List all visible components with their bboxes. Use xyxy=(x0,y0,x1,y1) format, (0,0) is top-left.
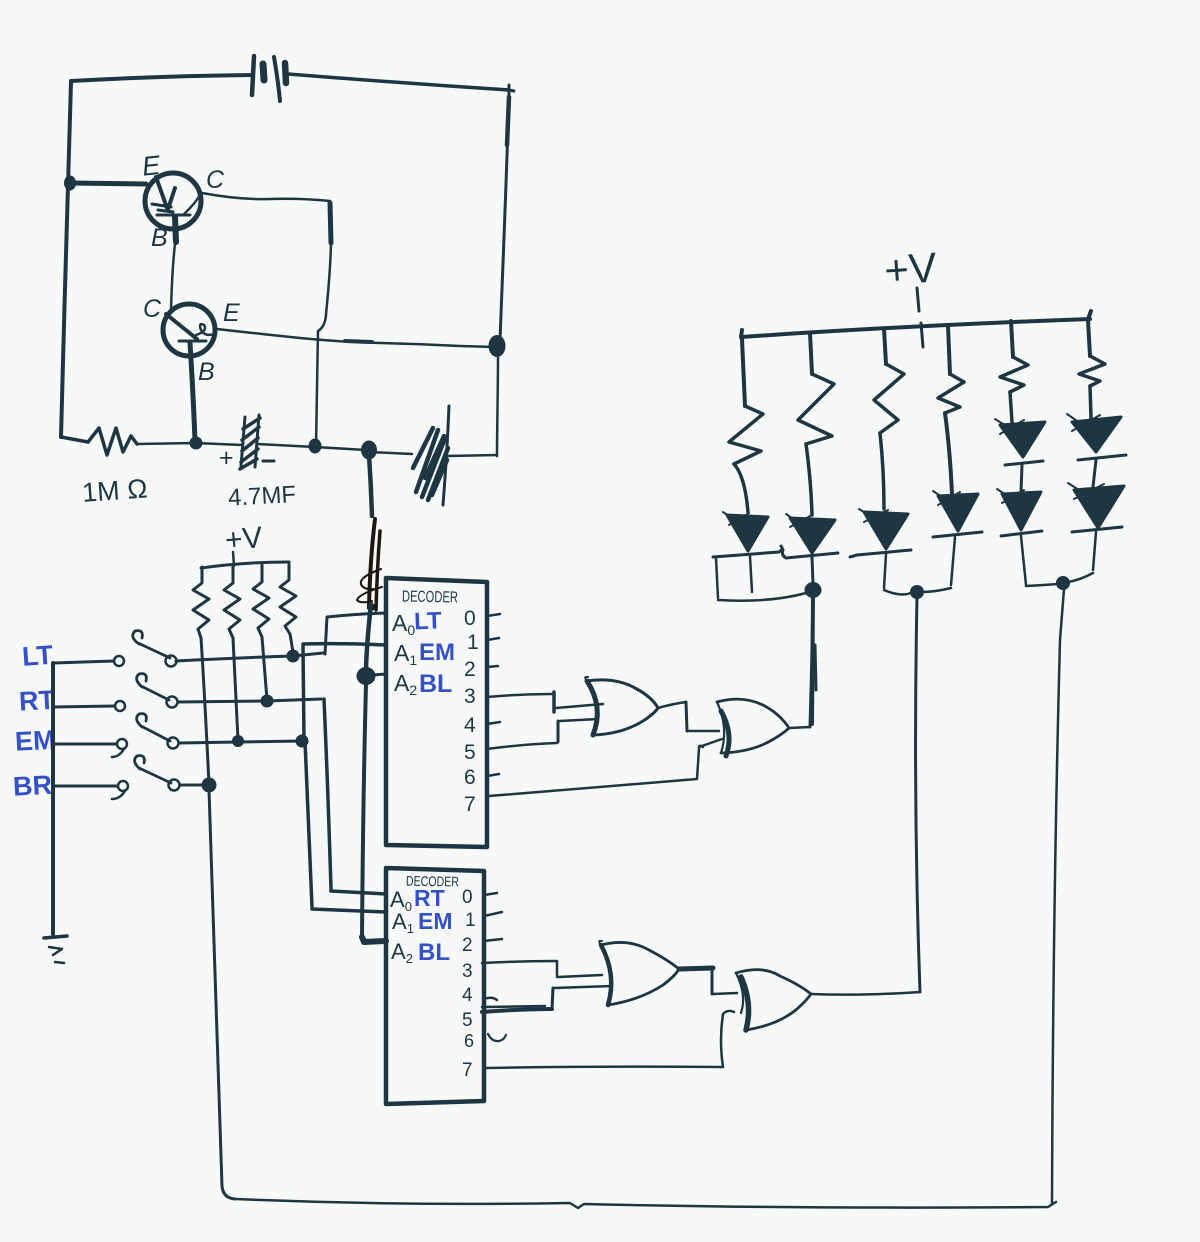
wire left vertical (battery- to bottom rail) xyxy=(61,82,71,437)
wire pullup bus xyxy=(201,562,288,568)
wire R4 column to RT row xyxy=(262,637,267,700)
resistor RL4 xyxy=(938,374,964,413)
wire U1 out4 stub xyxy=(487,722,500,724)
node left LED pair xyxy=(805,583,821,598)
wire LED branch1 mid xyxy=(734,464,748,512)
node brake LED pair xyxy=(1057,577,1070,590)
LED D3 xyxy=(850,509,911,557)
wire top rail left xyxy=(71,75,252,81)
wire LT row xyxy=(176,656,293,661)
node: base-resistor junction xyxy=(190,437,202,449)
wire LED branch2 mid xyxy=(806,444,812,515)
wire LED branch6 bottom xyxy=(1068,532,1096,582)
wire LED branch2 top xyxy=(810,333,812,374)
wire U1 out2 stub xyxy=(487,666,498,667)
LED D6a xyxy=(1067,414,1126,460)
wire U2 out1 stub xyxy=(484,912,502,916)
node RT-R4 xyxy=(261,695,273,707)
wire U1 out5 to G1 xyxy=(487,743,557,749)
wire LED branch5 top xyxy=(1011,321,1013,357)
decoder U1 xyxy=(386,578,487,847)
wire right vertical from battery+ xyxy=(500,85,514,341)
node: Q1 emitter junction on left vertical xyxy=(65,176,76,190)
resistor RL6 xyxy=(1079,356,1105,386)
resistor RL2 xyxy=(798,374,834,444)
wire BR row xyxy=(180,784,209,787)
LED D4 xyxy=(933,491,982,537)
wire LED branch6 mid xyxy=(1090,386,1091,418)
node BR junction xyxy=(202,778,216,792)
node right-turn LED pair xyxy=(911,586,924,599)
wire LED branch5 gap xyxy=(1021,465,1022,492)
wire U2 out7 to G4 xyxy=(484,1067,723,1068)
wire U1 out6 stub xyxy=(487,774,499,776)
wire bottom rail left xyxy=(61,437,88,442)
wire BL continue xyxy=(366,604,371,668)
or gate G1 xyxy=(585,677,658,735)
wire G2 up to left LED pair xyxy=(810,596,816,727)
wire switch common bus vertical xyxy=(51,663,55,934)
wire LED branch3 bottom xyxy=(884,554,911,594)
wire LED branch1 bottom xyxy=(716,556,806,601)
wire LED branch4 mid xyxy=(945,413,952,494)
wire LED branch1 top xyxy=(742,339,745,406)
wire LED branch3 top xyxy=(884,329,886,364)
svg-text:LT: LT xyxy=(414,607,443,635)
wire out7 riser to G4 xyxy=(721,1011,734,1067)
wire LED branch4 bottom xyxy=(921,537,955,592)
wire Q1 collector xyxy=(202,193,330,201)
xor gate G4 xyxy=(736,970,811,1030)
wire Q2 emitter to right vertical xyxy=(217,329,495,347)
wire BR down long xyxy=(209,790,235,1199)
ground xyxy=(44,936,67,963)
wire U2 out2 stub xyxy=(484,939,502,941)
battery B1 xyxy=(252,56,286,101)
resistor R2 xyxy=(193,567,209,638)
wire R3 column to EM row xyxy=(233,638,238,740)
resistor RL5 xyxy=(1000,357,1028,392)
wire EM down to decoder2 A1 xyxy=(305,741,386,912)
svg-text:7: 7 xyxy=(464,793,476,816)
svg-text:B: B xyxy=(151,224,168,252)
wire RT row xyxy=(178,699,321,702)
svg-text:C: C xyxy=(206,166,225,194)
LED D5b xyxy=(997,489,1042,536)
wire G4 output xyxy=(811,992,920,995)
svg-text:EM: EM xyxy=(418,908,453,934)
wire R2 column to BR row xyxy=(201,638,209,785)
wire +V ticks xyxy=(917,288,923,347)
capacitor C1 4.7MF xyxy=(240,415,260,469)
svg-text:EM: EM xyxy=(14,725,56,757)
wire bottom rail xyxy=(137,443,242,445)
node: decoder1 A2 junction xyxy=(357,668,375,685)
svg-text:2: 2 xyxy=(464,658,476,681)
svg-text:2: 2 xyxy=(462,935,473,956)
wire U1 out1 stub xyxy=(487,638,499,640)
wire LED supply bus xyxy=(741,311,1091,337)
node EM branch xyxy=(296,735,308,747)
svg-text:C: C xyxy=(143,295,162,323)
wire U2 out3 to G3 xyxy=(482,961,602,977)
svg-text:+: + xyxy=(219,444,234,472)
wire G2 output xyxy=(789,727,810,728)
wire EM up to decoder1 A1 xyxy=(303,644,386,741)
svg-text:BL: BL xyxy=(418,939,450,966)
svg-text:LT: LT xyxy=(21,640,55,672)
wire U1 out3 to G1 xyxy=(487,694,552,697)
wire LED branch5 bottom xyxy=(1021,536,1058,586)
label C1 minus xyxy=(263,460,274,463)
wire U1 out0 stub xyxy=(487,614,500,616)
wire +V tick xyxy=(233,552,234,566)
wire U2 out6 squiggle stub xyxy=(488,1034,506,1041)
svg-text:3: 3 xyxy=(462,961,473,982)
node: right vertical junction with Q2 emitter xyxy=(489,336,505,357)
svg-text:6: 6 xyxy=(464,766,476,789)
wire U2 out5 to G3 xyxy=(482,1009,552,1012)
svg-text:RT: RT xyxy=(18,685,56,717)
svg-text:0: 0 xyxy=(464,607,476,630)
wire R5 column to LT row xyxy=(290,634,293,652)
resistor RL1 xyxy=(729,406,763,464)
wire LED branch6 gap xyxy=(1093,460,1096,487)
wire LT to A0 xyxy=(293,613,386,656)
wire top rail right xyxy=(288,74,509,90)
wire LED branch4 top xyxy=(948,326,950,374)
wire U2 out4 stub xyxy=(484,998,497,1000)
wire BL thick from tap xyxy=(369,455,372,516)
transistor Q2 xyxy=(163,304,215,356)
LED D5a xyxy=(995,419,1045,465)
wire U1 out7 to G2 xyxy=(489,739,722,796)
svg-text:3: 3 xyxy=(464,685,476,708)
resistor R3 xyxy=(224,565,240,638)
svg-text:1: 1 xyxy=(467,631,479,654)
wire LED branch6 top xyxy=(1088,320,1090,356)
wire RT down to decoder2 A0 xyxy=(324,699,386,894)
svg-text:BL: BL xyxy=(419,670,452,698)
svg-text:+V: +V xyxy=(224,521,264,557)
transistor Q1 xyxy=(145,173,201,229)
wire bottom bus xyxy=(235,1199,1056,1208)
svg-text:4: 4 xyxy=(462,985,473,1006)
node: BL tap junction xyxy=(362,441,377,459)
wire LED branch5 mid xyxy=(1010,392,1012,422)
svg-text:7: 7 xyxy=(462,1060,473,1081)
svg-text:DECODER: DECODER xyxy=(402,589,458,607)
wire Q1 emitter lead xyxy=(70,183,146,184)
svg-text:6: 6 xyxy=(464,1031,474,1051)
wire BL down to decoder2 xyxy=(362,684,366,937)
node EM-R3 xyxy=(233,736,244,747)
switch SW-LT xyxy=(53,631,177,667)
resistor R1 1M xyxy=(88,428,137,455)
wire BL dark scribble xyxy=(357,519,382,611)
wire right riser to brake LEDs xyxy=(1052,589,1064,1204)
resistor R4 xyxy=(253,564,269,637)
wire Q1 collector vertical down xyxy=(316,203,331,446)
LED D6b xyxy=(1068,483,1124,532)
switch SW-EM xyxy=(53,714,179,757)
wire Q2 base down xyxy=(190,343,195,440)
wire G3 output to G4 xyxy=(679,968,713,969)
wire LED branch2 bottom xyxy=(812,557,813,584)
wire C2 to right vertical xyxy=(448,455,497,456)
wire left pair down to G2 xyxy=(812,596,813,724)
svg-text:E: E xyxy=(223,299,240,327)
svg-text:BR: BR xyxy=(12,770,53,802)
svg-text:5: 5 xyxy=(462,1010,473,1031)
LED D2 xyxy=(782,514,838,558)
svg-text:0: 0 xyxy=(462,887,473,908)
wire bottom rail to C2 xyxy=(369,452,412,454)
LED D1 xyxy=(713,512,782,557)
node LT-R5 xyxy=(287,650,299,662)
svg-text:5: 5 xyxy=(464,741,476,764)
svg-text:1M Ω: 1M Ω xyxy=(81,473,149,508)
wire U2 out0 stub xyxy=(484,893,497,895)
svg-text:4: 4 xyxy=(464,714,476,737)
wire G1 output to G2 xyxy=(658,702,686,708)
wire LED branch3 mid xyxy=(880,433,884,509)
wire A2 stub decoder1 xyxy=(373,674,386,675)
switch SW-RT xyxy=(53,674,178,711)
decoder U2 xyxy=(386,868,484,1104)
svg-text:B: B xyxy=(198,358,215,386)
svg-text:4.7MF: 4.7MF xyxy=(227,481,296,512)
node: bottom rail junction 1 xyxy=(309,439,321,453)
resistor R5 xyxy=(280,562,296,634)
svg-text:+V: +V xyxy=(883,244,939,295)
wire mid riser to right-turn LED pair xyxy=(916,596,920,992)
wire right vertical lower xyxy=(497,353,498,456)
or gate G3 xyxy=(599,941,679,1005)
resistor RL3 xyxy=(874,364,904,433)
switch SW-BR xyxy=(53,756,180,799)
capacitor C2 xyxy=(413,406,449,505)
svg-text:EM: EM xyxy=(419,639,455,666)
xor gate G2 xyxy=(717,699,789,756)
svg-text:1: 1 xyxy=(465,910,476,931)
wire EM row xyxy=(179,741,302,743)
wire bottom rail mid xyxy=(257,444,366,450)
wire Q1 base down to Q2 xyxy=(175,217,176,242)
